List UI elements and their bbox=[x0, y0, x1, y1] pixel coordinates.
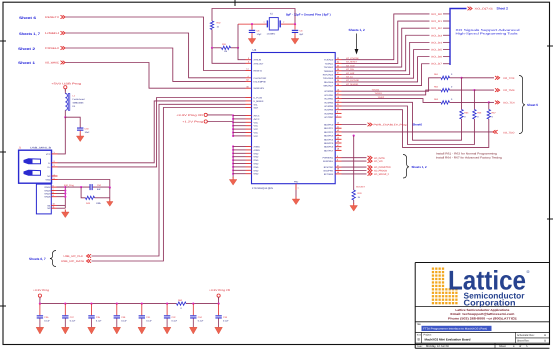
node gnd junction bbox=[232, 162, 234, 164]
wire rail left drop bbox=[39, 297, 41, 303]
bus entry XO_D7 bbox=[443, 63, 450, 65]
svg-text:43: 43 bbox=[337, 129, 339, 132]
svg-text:Corporation: Corporation bbox=[464, 298, 516, 308]
node gnd junction bbox=[232, 173, 234, 175]
svg-text:25: 25 bbox=[337, 64, 339, 67]
svg-text:AVCC: AVCC bbox=[254, 118, 260, 121]
svg-text:TXE#/AD5: TXE#/AD5 bbox=[323, 77, 334, 80]
svg-text:XO_TDO: XO_TDO bbox=[503, 131, 515, 134]
ground PAD bbox=[292, 197, 300, 205]
U3 left stub bbox=[246, 103, 252, 105]
wire C52R43 vert bbox=[109, 188, 111, 200]
svg-text:6: 6 bbox=[337, 111, 338, 114]
svg-text:Install R64 - R67 for Advanced: Install R64 - R67 for Advanced Factory T… bbox=[436, 157, 503, 160]
svg-text:AC3/PB3: AC3/PB3 bbox=[324, 101, 334, 104]
svg-text:SDA: SDA bbox=[254, 107, 259, 110]
node SOCKET junction bbox=[353, 135, 355, 137]
arrow XO_TDI bbox=[495, 101, 500, 105]
wire to C40 bbox=[65, 117, 80, 127]
svg-text:GND: GND bbox=[254, 159, 259, 162]
power rail right +3.3V Prog #R bbox=[209, 289, 230, 299]
wire XO_WAKE bbox=[66, 63, 246, 89]
svg-text:0.1uF: 0.1uF bbox=[121, 320, 127, 323]
node C52 right bbox=[109, 186, 111, 188]
wire vcc stub bbox=[233, 121, 245, 123]
ground C36 bbox=[36, 327, 44, 334]
power +5V0 USB Prog bbox=[51, 83, 82, 92]
svg-text:VCC: VCC bbox=[254, 121, 259, 124]
svg-text:USB_MINI_B: USB_MINI_B bbox=[30, 147, 52, 150]
svg-text:XO_SENSE_2: XO_SENSE_2 bbox=[374, 173, 390, 176]
U3 left stub bbox=[246, 107, 252, 109]
wire M1 bbox=[57, 204, 66, 206]
svg-text:VCC: VCC bbox=[46, 153, 51, 156]
wire R66 bottom bbox=[342, 106, 475, 145]
svg-text:Sheet 5: Sheet 5 bbox=[527, 103, 538, 107]
wire vcc feed bbox=[207, 114, 233, 116]
frame tick left A bbox=[0, 40, 6, 42]
svg-text:RXF#/AD4: RXF#/AD4 bbox=[323, 74, 334, 77]
svg-text:VCC: VCC bbox=[254, 125, 259, 128]
resistor R61 bbox=[439, 77, 442, 79]
wire TCK out bbox=[462, 77, 495, 79]
svg-text:GND: GND bbox=[254, 156, 259, 159]
svg-text:19: 19 bbox=[337, 100, 339, 103]
svg-text:17: 17 bbox=[337, 92, 339, 95]
wire rail right drop bbox=[218, 297, 220, 303]
wire XO_D5 staircase bbox=[342, 50, 430, 79]
svg-text:GND: GND bbox=[254, 173, 259, 176]
svg-text:Phone (503) 268-8000 ~or (800): Phone (503) 268-8000 ~or (800)LATTICE bbox=[448, 316, 517, 320]
svg-text:8: 8 bbox=[53, 191, 54, 194]
wire to C52 bbox=[65, 186, 89, 188]
node C6 top bbox=[251, 23, 253, 25]
arrow XO_VIO bbox=[368, 159, 373, 163]
ground C33 bbox=[215, 327, 223, 334]
svg-text:AGND: AGND bbox=[254, 146, 261, 149]
svg-text:VCC: VCC bbox=[254, 132, 259, 135]
svg-text:10uF: 10uF bbox=[85, 131, 91, 134]
resistor R60 bbox=[177, 302, 187, 305]
svg-text:XO_D1: XO_D1 bbox=[431, 20, 443, 23]
bus entry XO_D5 bbox=[443, 49, 450, 51]
wire gnd stub bbox=[233, 173, 245, 175]
U3 stub XTALOUT bbox=[246, 62, 252, 64]
svg-text:57: 57 bbox=[337, 164, 339, 167]
wire R43 right bbox=[95, 197, 110, 199]
svg-text:12.0MHz: 12.0MHz bbox=[267, 32, 276, 35]
arrow XO_PROGN bbox=[368, 169, 373, 173]
wire shell stub bbox=[57, 193, 66, 195]
wire XO_TMS bbox=[342, 90, 439, 95]
svg-text:9: 9 bbox=[53, 194, 54, 197]
svg-text:XO_D7: XO_D7 bbox=[431, 63, 443, 66]
svg-text:8pF - 12pF = Ground Pins ( 8pF: 8pF - 12pF = Ground Pins ( 8pF ) bbox=[286, 12, 331, 16]
capacitor C39 bbox=[116, 304, 118, 316]
svg-text:BD2/PC2: BD2/PC2 bbox=[324, 131, 334, 134]
svg-text:XO_INITN: XO_INITN bbox=[374, 157, 385, 160]
wire R64 top bbox=[461, 78, 463, 110]
svg-text:XO_SSL: XO_SSL bbox=[346, 68, 355, 71]
svg-text:RD#/AD6: RD#/AD6 bbox=[324, 81, 334, 84]
wire R32 bottom bbox=[211, 30, 213, 48]
svg-text:+1.2V Prog: +1.2V Prog bbox=[182, 121, 204, 124]
svg-text:36: 36 bbox=[246, 85, 248, 88]
svg-text:XO_A1: XO_A1 bbox=[346, 76, 354, 79]
node vcc junction bbox=[232, 125, 234, 127]
wire USB_I2C_DATA bbox=[92, 108, 246, 262]
svg-text:Date:: Date: bbox=[417, 345, 423, 348]
U3 left stub bbox=[246, 100, 252, 102]
wire shell stub bbox=[57, 190, 66, 192]
wire USBU bbox=[66, 33, 246, 78]
brace Sheets 1 2 bbox=[403, 155, 409, 179]
wire PAD bbox=[295, 190, 297, 197]
svg-text:BD5/PC5: BD5/PC5 bbox=[324, 142, 334, 145]
arrow XO_TMS bbox=[495, 88, 500, 92]
bus entry XO_D0 bbox=[443, 13, 450, 15]
svg-text:WR#/AD7: WR#/AD7 bbox=[323, 85, 334, 88]
arrow XO_INITN bbox=[368, 156, 373, 160]
wire vcc stub bbox=[233, 135, 245, 137]
bus entry XO_D3 bbox=[443, 34, 450, 36]
svg-text:0.1uF: 0.1uF bbox=[172, 320, 178, 323]
svg-text:+3.3V Prog: +3.3V Prog bbox=[33, 289, 50, 292]
node R32-R31 junction bbox=[211, 47, 213, 49]
svg-text:2: 2 bbox=[54, 160, 55, 163]
inductor L2 bbox=[65, 89, 70, 111]
node gnd junction bbox=[232, 159, 234, 161]
resistor R43 bbox=[86, 196, 95, 199]
svg-text:41: 41 bbox=[337, 125, 339, 128]
wire XO_INITN bbox=[342, 157, 367, 159]
svg-text:+3.3V Prog #R: +3.3V Prog #R bbox=[209, 289, 230, 292]
node rail C33 bbox=[218, 303, 220, 305]
node RESET# arrow bbox=[61, 15, 66, 19]
svg-text:1: 1 bbox=[264, 20, 265, 23]
U3 left stub RESET# bbox=[246, 70, 252, 72]
svg-text:BD3/PC3: BD3/PC3 bbox=[324, 135, 334, 138]
svg-text:AC4/PB4: AC4/PB4 bbox=[324, 105, 334, 108]
svg-text:10: 10 bbox=[53, 203, 55, 206]
power rail left +3.3V Prog bbox=[33, 289, 50, 299]
wire gnd stub bbox=[233, 146, 245, 148]
svg-text:28: 28 bbox=[337, 75, 339, 78]
svg-text:Sheet 6: Sheet 6 bbox=[19, 16, 36, 20]
svg-text:AGND: AGND bbox=[254, 149, 261, 152]
node vcc junction bbox=[232, 118, 234, 120]
svg-text:Ferrite bead: Ferrite bead bbox=[73, 98, 86, 101]
wire XTALOUT bbox=[212, 48, 246, 64]
node vcc junction bbox=[232, 114, 234, 116]
wire R43 left bbox=[81, 187, 85, 198]
svg-text:GND: GND bbox=[254, 152, 259, 155]
wire shell stub bbox=[57, 186, 66, 188]
wire R66 top bbox=[473, 90, 475, 109]
frame tick top bbox=[234, 0, 236, 6]
svg-text:8: 8 bbox=[337, 155, 338, 158]
ground J1 shell bbox=[62, 210, 70, 218]
node R31 right junction bbox=[237, 47, 239, 49]
svg-text:62: 62 bbox=[246, 79, 248, 82]
capacitor C32 bbox=[166, 304, 168, 316]
node vcc junction bbox=[232, 121, 234, 123]
svg-text:30: 30 bbox=[337, 83, 339, 86]
svg-text:XO_TMS: XO_TMS bbox=[503, 89, 515, 92]
power +1.2V Prog bbox=[182, 120, 207, 124]
node vcc junction bbox=[232, 135, 234, 137]
crystal X1 bbox=[265, 18, 284, 30]
svg-text:VCC: VCC bbox=[254, 135, 259, 138]
wire gnd stub bbox=[233, 159, 245, 161]
svg-text:BD0/PC0: BD0/PC0 bbox=[324, 124, 334, 127]
svg-text:AC0/PB0: AC0/PB0 bbox=[324, 90, 334, 93]
capacitor C6 bbox=[251, 24, 253, 30]
svg-text:Sheet: Sheet bbox=[499, 345, 506, 348]
svg-text:Project:: Project: bbox=[424, 334, 432, 337]
svg-text:FT2232HQ 64 QFN: FT2232HQ 64 QFN bbox=[252, 187, 273, 190]
svg-text:XO_D5: XO_D5 bbox=[431, 49, 443, 52]
svg-text:40: 40 bbox=[337, 122, 339, 125]
svg-text:B: B bbox=[544, 334, 546, 337]
svg-text:22: 22 bbox=[337, 107, 339, 110]
svg-text:GND: GND bbox=[254, 166, 259, 169]
svg-text:0.1uF: 0.1uF bbox=[44, 320, 50, 323]
svg-text:High-Speed Programming Tools: High-Speed Programming Tools bbox=[456, 32, 519, 36]
wire XO_D0 staircase bbox=[342, 14, 430, 60]
svg-text:XO_DONE/TDO: XO_DONE/TDO bbox=[374, 166, 391, 169]
svg-text:®: ® bbox=[527, 269, 530, 274]
frame tick right B bbox=[547, 218, 553, 220]
svg-text:26: 26 bbox=[337, 68, 339, 71]
svg-text:Monday, 12 Jun 08: Monday, 12 Jun 08 bbox=[426, 345, 449, 348]
svg-text:XTALOUT: XTALOUT bbox=[254, 62, 265, 65]
arrow sheets12 bbox=[355, 34, 359, 55]
svg-text:Sheet6: Sheet6 bbox=[413, 123, 423, 127]
svg-text:12pF: 12pF bbox=[257, 33, 263, 36]
svg-text:USB_I2C_DATA: USB_I2C_DATA bbox=[61, 260, 84, 263]
node gnd junction bbox=[232, 145, 234, 147]
title block frame bbox=[415, 263, 549, 349]
node gnd junction bbox=[232, 152, 234, 154]
svg-text:0.1uF: 0.1uF bbox=[146, 320, 152, 323]
capacitor C7 bbox=[294, 24, 296, 30]
bus entry XO_D4 bbox=[443, 41, 450, 43]
wire XO_D4 staircase bbox=[342, 42, 430, 74]
wire XO_D1 staircase bbox=[342, 21, 430, 63]
svg-text:D_MINUS: D_MINUS bbox=[254, 100, 264, 103]
svg-text:9: 9 bbox=[337, 158, 338, 161]
Lattice logo checkers bbox=[432, 268, 458, 305]
U3 left stub USBU bbox=[246, 77, 252, 79]
wire RESET# bbox=[66, 17, 246, 71]
svg-text:8pF: 8pF bbox=[300, 33, 304, 36]
svg-text:8nF: 8nF bbox=[97, 188, 101, 191]
wire L2 to C40 bbox=[64, 110, 66, 117]
svg-text:GND: GND bbox=[254, 169, 259, 172]
wire XO_TDO bbox=[342, 131, 494, 133]
svg-text:BC5/TDO: BC5/TDO bbox=[324, 166, 334, 169]
wire gnd stub bbox=[233, 169, 245, 171]
svg-text:1M: 1M bbox=[224, 50, 227, 53]
wire TMS out bbox=[474, 89, 494, 91]
svg-text:0.1uF: 0.1uF bbox=[96, 320, 102, 323]
node TCK junction bbox=[460, 77, 462, 79]
node XO_WAKE arrow bbox=[61, 61, 66, 65]
bus entry XO_D1 bbox=[443, 20, 450, 22]
ground C34 bbox=[190, 327, 198, 334]
svg-text:Sheet Rev:: Sheet Rev: bbox=[517, 340, 530, 343]
svg-text:Title: Title bbox=[417, 323, 422, 326]
wire J1 gnd bbox=[58, 180, 110, 188]
node rail C36 bbox=[39, 303, 41, 305]
node vcc junction bbox=[232, 131, 234, 133]
svg-text:RESET#: RESET# bbox=[254, 70, 263, 73]
connector J1 shell bbox=[36, 184, 51, 214]
svg-text:4: 4 bbox=[247, 75, 248, 78]
svg-text:AC6/PB6: AC6/PB6 bbox=[324, 112, 334, 115]
wire gnd stub bbox=[233, 163, 245, 165]
wire PWR_ENABLE bbox=[342, 124, 367, 126]
svg-text:XO_ASP: XO_ASP bbox=[346, 72, 355, 75]
svg-text:BD4/PC4: BD4/PC4 bbox=[324, 138, 334, 141]
svg-text:7: 7 bbox=[53, 188, 54, 191]
svg-text:XTALIN: XTALIN bbox=[254, 59, 262, 62]
svg-text:5: 5 bbox=[54, 177, 55, 180]
svg-text:BD7/PC7: BD7/PC7 bbox=[324, 149, 334, 152]
svg-text:14: 14 bbox=[246, 68, 248, 71]
node CRSEL# arrow bbox=[61, 46, 66, 50]
svg-text:59: 59 bbox=[337, 171, 339, 174]
resistor R33 bbox=[352, 190, 355, 200]
wire XO_VIO bbox=[342, 160, 367, 162]
wire R67 top bbox=[488, 102, 490, 109]
svg-text:44: 44 bbox=[337, 133, 339, 136]
frame tick left B bbox=[0, 151, 6, 153]
svg-text:XO_D4: XO_D4 bbox=[431, 41, 443, 44]
svg-text:Install R61 - R63 for Normal P: Install R61 - R63 for Normal Programming bbox=[436, 153, 498, 156]
wire vcc stub bbox=[233, 118, 245, 120]
svg-text:2: 2 bbox=[248, 57, 249, 60]
svg-text:USB_I2C_CLK: USB_I2C_CLK bbox=[64, 255, 84, 258]
svg-text:GND4: GND4 bbox=[44, 193, 51, 196]
svg-text:XO_D6: XO_D6 bbox=[431, 56, 443, 59]
capacitor C36 bbox=[39, 304, 41, 316]
wire R64 bottom bbox=[342, 102, 462, 140]
wire crystal row bbox=[238, 23, 265, 25]
ground C31 bbox=[138, 327, 146, 334]
node rail C32 bbox=[166, 303, 168, 305]
svg-text:Sheet 2: Sheet 2 bbox=[497, 7, 509, 11]
wire XO_D7 staircase bbox=[342, 64, 430, 86]
wire USB_I2C_CLK bbox=[92, 104, 246, 256]
node C52 left bbox=[80, 186, 82, 188]
wire XO_TDI bbox=[342, 99, 439, 103]
wire vcc stub bbox=[233, 115, 245, 117]
resistor R32 bbox=[210, 21, 213, 30]
svg-text:Schematic Rev:: Schematic Rev: bbox=[517, 334, 535, 337]
arrow XO_DONE/TDO bbox=[368, 165, 373, 169]
svg-text:AC7/PB7: AC7/PB7 bbox=[324, 116, 334, 119]
node gnd junction bbox=[232, 166, 234, 168]
svg-text:XO_RESET: XO_RESET bbox=[346, 61, 358, 64]
wire XO_D3 staircase bbox=[342, 35, 430, 71]
capacitor C40 bbox=[77, 128, 83, 131]
wire gnd2 rail bbox=[57, 186, 66, 188]
frame tick left C bbox=[0, 305, 6, 307]
svg-text:SUSPND#: SUSPND# bbox=[323, 160, 334, 163]
svg-text:58: 58 bbox=[337, 168, 339, 171]
svg-text:3: 3 bbox=[248, 61, 249, 64]
connector J1 body bbox=[19, 150, 52, 183]
svg-text:2: 2 bbox=[283, 20, 284, 23]
svg-text:BC6/PRG: BC6/PRG bbox=[324, 170, 334, 173]
svg-text:XO_FIXTURE: XO_FIXTURE bbox=[346, 79, 360, 82]
svg-text:Sheet 2: Sheet 2 bbox=[18, 47, 35, 51]
svg-text:SOCKET: SOCKET bbox=[356, 185, 366, 188]
svg-text:D_PLUS: D_PLUS bbox=[254, 97, 263, 100]
svg-text:47: 47 bbox=[337, 144, 339, 147]
brace Sheet 5 bbox=[519, 76, 525, 134]
U3 left stub XO_WAKE bbox=[246, 87, 252, 89]
svg-text:AVCC: AVCC bbox=[254, 115, 260, 118]
svg-text:24: 24 bbox=[337, 61, 339, 64]
wire XO_D2 staircase bbox=[342, 28, 430, 67]
svg-text:AC2/PB2: AC2/PB2 bbox=[324, 98, 334, 101]
svg-text:TCK/AD0: TCK/AD0 bbox=[324, 59, 334, 62]
svg-text:BD6/PC6: BD6/PC6 bbox=[324, 146, 334, 149]
capacitor C34 bbox=[192, 304, 194, 316]
svg-text:NC: NC bbox=[47, 175, 51, 178]
wire XO_PROGN bbox=[342, 170, 367, 172]
wire SOCKET bbox=[353, 136, 355, 190]
svg-text:of: of bbox=[519, 345, 521, 348]
node USBU arrow bbox=[61, 31, 66, 35]
svg-text:BD1/PC1: BD1/PC1 bbox=[324, 127, 334, 130]
wire vcc to J1 bbox=[58, 117, 66, 154]
svg-text:USBU: USBU bbox=[45, 32, 59, 35]
svg-text:CLKOUT/SI2: CLKOUT/SI2 bbox=[254, 77, 268, 80]
svg-text:21: 21 bbox=[337, 103, 339, 106]
svg-text:B: B bbox=[544, 340, 546, 343]
svg-text:XO_JTMODE: XO_JTMODE bbox=[346, 57, 359, 60]
wire D_MINUS bbox=[58, 101, 246, 163]
svg-text:45: 45 bbox=[337, 137, 339, 140]
U3 left stub CRSEL# bbox=[246, 80, 252, 82]
resistor R66 bbox=[473, 110, 476, 120]
node gnd junction bbox=[232, 169, 234, 171]
bus arrow bbox=[468, 7, 473, 11]
svg-text:FTDI Programmer Interface to M: FTDI Programmer Interface to MachXO2 (Pa… bbox=[423, 328, 487, 331]
svg-text:PWR_ENABLE#_Prog: PWR_ENABLE#_Prog bbox=[374, 124, 408, 127]
svg-text:Sheets 1, 2: Sheets 1, 2 bbox=[412, 165, 427, 169]
svg-text:Sheet 1: Sheet 1 bbox=[18, 61, 35, 65]
wire TDI out bbox=[489, 101, 494, 103]
ground C7 bbox=[291, 36, 299, 44]
resistor R64 bbox=[460, 110, 463, 120]
svg-text:16: 16 bbox=[337, 88, 339, 91]
wire gnd stub bbox=[233, 166, 245, 168]
arrow USB_I2C_DATA bbox=[87, 259, 92, 263]
wire XO_DONE/TDO bbox=[342, 166, 367, 168]
capacitor C33 bbox=[218, 304, 220, 316]
svg-text:46: 46 bbox=[337, 140, 339, 143]
J1 usb symbol 1 bbox=[24, 159, 41, 164]
arrow XO_TCK bbox=[495, 76, 500, 80]
svg-text:XO_TDI: XO_TDI bbox=[503, 102, 515, 105]
resistor R62 bbox=[439, 89, 442, 91]
wire shell stub bbox=[57, 196, 66, 198]
